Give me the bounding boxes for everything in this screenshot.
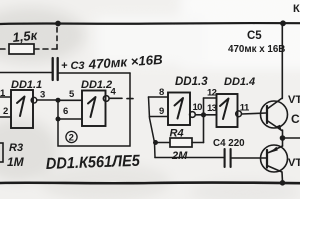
svg-text:VT: VT	[288, 94, 300, 106]
svg-text:2: 2	[69, 133, 74, 144]
svg-text:2М: 2М	[171, 150, 188, 162]
svg-text:1: 1	[0, 88, 6, 99]
svg-text:1,5к: 1,5к	[12, 27, 39, 45]
svg-text:+ С3: + С3	[61, 60, 85, 72]
svg-text:470мк х 16В: 470мк х 16В	[228, 44, 285, 55]
svg-text:6: 6	[63, 106, 68, 117]
svg-text:3: 3	[40, 90, 45, 101]
svg-text:4: 4	[111, 87, 117, 98]
svg-text:С4 220: С4 220	[213, 138, 245, 149]
svg-text:5: 5	[69, 89, 75, 100]
svg-text:DD1.1: DD1.1	[11, 79, 42, 91]
svg-text:К: К	[293, 3, 300, 15]
svg-text:1М: 1М	[7, 155, 25, 169]
svg-text:VT: VT	[288, 157, 300, 169]
svg-text:R3: R3	[9, 142, 23, 154]
svg-text:R4: R4	[170, 128, 184, 140]
svg-text:9: 9	[159, 106, 164, 117]
svg-text:12: 12	[207, 88, 217, 99]
svg-text:2: 2	[3, 106, 8, 117]
svg-text:DD1.2: DD1.2	[81, 79, 112, 91]
svg-text:13: 13	[207, 103, 217, 114]
svg-text:DD1.К561ЛЕ5: DD1.К561ЛЕ5	[46, 153, 142, 173]
svg-text:10: 10	[193, 102, 203, 113]
svg-text:11: 11	[240, 103, 250, 114]
svg-text:С: С	[291, 112, 300, 126]
svg-text:DD1.3: DD1.3	[175, 76, 208, 88]
svg-text:DD1.4: DD1.4	[224, 76, 255, 88]
svg-text:8: 8	[159, 87, 164, 98]
svg-text:С5: С5	[247, 30, 262, 42]
